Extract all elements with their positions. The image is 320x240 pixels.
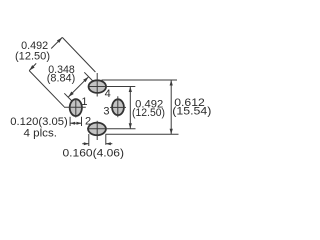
pad 4 vertical centerline <box>96 73 98 97</box>
pad 4 horizontal centerline / 0.492 top ref <box>89 86 135 88</box>
arrowhead 0.492r up <box>129 87 132 93</box>
0.160 left arrow shaft <box>82 143 89 145</box>
pad 1 horizontal centerline <box>64 106 86 108</box>
svg-text:4 plcs.: 4 plcs. <box>24 127 58 139</box>
svg-text:(8.84): (8.84) <box>47 73 76 85</box>
ref line pad4 top tangent (0.612 top) <box>102 79 178 81</box>
ext line 0.120 left <box>69 117 71 126</box>
svg-text:0.160(4.06): 0.160(4.06) <box>63 148 125 160</box>
arrowhead 0.120 right <box>77 122 82 125</box>
dim double arrow 0.120 <box>70 122 81 124</box>
svg-text:4: 4 <box>105 88 111 100</box>
dim line 0.492 right vertical <box>129 87 131 129</box>
arrowhead 0.612 up <box>170 80 173 86</box>
ext line 0.120 right <box>81 117 83 126</box>
arrowhead 0.160 right <box>106 142 111 145</box>
svg-text:1: 1 <box>81 96 87 108</box>
0.160 right arrow shaft <box>106 143 113 145</box>
svg-text:2: 2 <box>85 115 91 127</box>
svg-text:3: 3 <box>103 106 109 118</box>
ext line 0.160 left <box>88 134 90 146</box>
arrowhead 0.348 lower <box>68 92 73 97</box>
svg-text:(12.50): (12.50) <box>15 50 50 62</box>
arrowhead at top corner <box>57 37 62 42</box>
pad 2 horizontal centerline / 0.492 bottom ref <box>87 128 136 130</box>
arrowhead 0.348 upper <box>83 77 88 82</box>
extension tick at pad4 for 0.348 <box>84 72 93 81</box>
pad 3 vertical centerline <box>117 96 119 117</box>
pad 3 horizontal centerline <box>110 106 126 108</box>
pad 3 (right) <box>110 96 126 117</box>
outline square bottom-left edge <box>29 71 64 107</box>
arrowhead 0.160 left <box>84 142 89 145</box>
pad 1 vertical centerline <box>75 98 77 117</box>
pad 4 (top) <box>89 73 136 97</box>
pad 2 vertical centerline <box>96 121 98 140</box>
svg-text:0.120(3.05): 0.120(3.05) <box>10 116 68 128</box>
dim line 0.348 (between pad1 and pad4 centers) <box>68 77 88 97</box>
dim line 0.612 vertical <box>170 80 172 134</box>
outline square top-right edge <box>62 37 95 72</box>
pad 1 (left) <box>64 98 86 117</box>
arrowhead at left corner <box>29 65 34 70</box>
arrowhead 0.612 down <box>170 129 173 135</box>
pad 2 (bottom) <box>87 121 136 140</box>
svg-text:(12.50): (12.50) <box>132 107 165 119</box>
ref line pad2 bottom tangent (0.612 bottom) <box>106 133 179 135</box>
extension tick at pad1 for 0.348 <box>64 93 73 102</box>
outline square top-left edge / dim line 0.492 seg2 <box>51 37 62 48</box>
arrowhead 0.492r down <box>129 123 132 129</box>
outline square top-left edge / dim line 0.492 seg1 <box>29 63 36 70</box>
svg-text:(15.54): (15.54) <box>172 105 211 117</box>
arrowhead 0.120 left <box>70 122 75 125</box>
ext line 0.160 right <box>105 134 107 145</box>
